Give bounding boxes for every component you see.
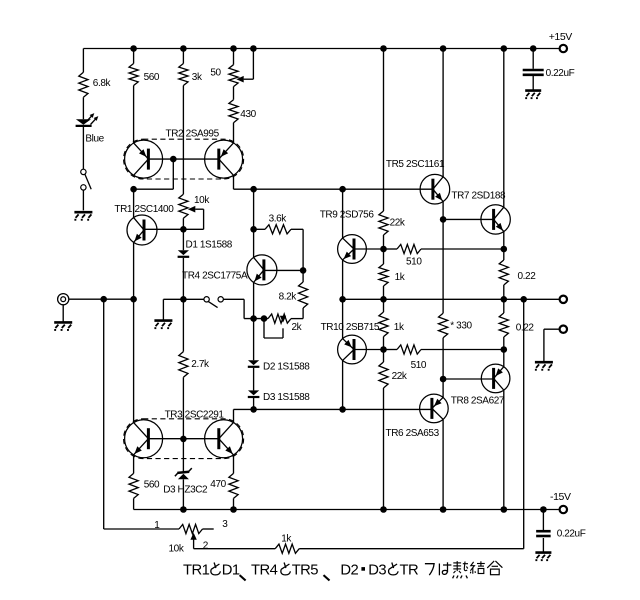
wire input	[69, 298, 134, 300]
node	[339, 296, 346, 303]
wire TR5 collector	[442, 49, 444, 178]
trimmer 10k bottom	[103, 299, 105, 529]
svg-text:TR7 2SD188: TR7 2SD188	[451, 191, 506, 202]
node	[230, 45, 237, 52]
wire	[233, 49, 235, 65]
svg-text:1k: 1k	[395, 272, 406, 283]
trimmer 10k	[179, 194, 188, 218]
node	[180, 506, 187, 513]
svg-text:TR5 2SC1161: TR5 2SC1161	[386, 159, 445, 170]
wire	[82, 49, 84, 73]
wire pin3 stub	[203, 528, 214, 530]
node	[250, 186, 257, 193]
wire TR6 collector	[442, 420, 444, 510]
rheostat 2k	[268, 314, 291, 323]
node	[130, 186, 137, 193]
node	[339, 406, 346, 413]
wire TR7 base	[443, 218, 493, 220]
caption kanji gou	[487, 561, 494, 568]
wire	[82, 190, 84, 210]
svg-text:560: 560	[144, 72, 160, 83]
node	[130, 296, 137, 303]
wire	[302, 229, 304, 270]
resistor 1k upper	[383, 249, 385, 264]
wire	[383, 49, 385, 212]
caption glyph 7	[425, 564, 434, 575]
switch S1	[81, 169, 86, 174]
resistor 0.22 upper	[503, 249, 505, 260]
transistor TR4 2SC1775A	[247, 255, 277, 285]
node	[380, 506, 387, 513]
wire output row	[343, 298, 560, 300]
node	[230, 506, 237, 513]
svg-text:* 330: * 330	[450, 321, 472, 332]
svg-text:510: 510	[406, 257, 422, 268]
node	[380, 346, 387, 353]
wire	[383, 235, 385, 249]
svg-text:0.22: 0.22	[518, 271, 537, 282]
svg-text:D3: D3	[368, 562, 386, 578]
svg-text:TR4 2SC1775A: TR4 2SC1775A	[182, 271, 248, 282]
wire TR10 emitter	[342, 299, 344, 339]
wire	[182, 49, 184, 64]
wire TR3b collector	[233, 409, 235, 423]
wire TR4 emitter	[253, 282, 255, 319]
svg-text:3.6k: 3.6k	[269, 214, 288, 225]
node	[339, 186, 346, 193]
svg-text:TR8 2SA627: TR8 2SA627	[451, 396, 505, 407]
resistor 3k	[179, 64, 188, 86]
resistor 560 top	[129, 64, 138, 86]
node	[440, 506, 447, 513]
transistor TR6 2SA653	[420, 394, 449, 423]
node	[530, 45, 537, 52]
svg-text:3: 3	[222, 519, 228, 530]
wire jack ground stem	[62, 305, 64, 322]
node	[261, 315, 268, 322]
resistor 0.22 lower	[503, 299, 505, 313]
ground speaker	[535, 361, 553, 364]
svg-text:50: 50	[210, 68, 221, 79]
resistor 2.7k	[182, 299, 184, 351]
wire TR8 collector	[503, 390, 505, 510]
wire TR9 collector	[342, 189, 344, 238]
resistor 1k feedback	[299, 548, 524, 550]
input jack	[58, 294, 69, 305]
node	[300, 267, 307, 274]
caption middle dot	[361, 567, 365, 571]
wire TR1 base	[144, 228, 204, 230]
node	[380, 45, 387, 52]
terminal -15V	[560, 506, 567, 513]
caption glyph to 3	[392, 563, 394, 569]
wire	[442, 338, 444, 398]
svg-text:D2: D2	[340, 562, 358, 578]
node	[250, 315, 257, 322]
svg-text:TR2 2SA995: TR2 2SA995	[166, 129, 220, 140]
svg-text:D1: D1	[222, 562, 240, 578]
wire TR5 emitter	[442, 201, 444, 220]
svg-text:8.2k: 8.2k	[279, 292, 298, 303]
ground input	[54, 321, 72, 324]
ground tap	[162, 299, 164, 319]
dashed pair box TR2	[124, 139, 244, 179]
svg-text:2: 2	[203, 541, 209, 552]
wire TR9 base	[354, 248, 384, 250]
wire TR2b collector to VAS line	[233, 175, 235, 189]
svg-text:+15V: +15V	[549, 31, 573, 43]
wire TR3 base link	[148, 438, 218, 440]
diode D1 1S1588	[178, 250, 189, 255]
node	[501, 45, 508, 52]
svg-text:TR6 2SA653: TR6 2SA653	[386, 428, 440, 439]
svg-text:TR1 2SC1400: TR1 2SC1400	[114, 204, 174, 215]
svg-text:10k: 10k	[194, 195, 210, 206]
node	[380, 296, 387, 303]
svg-text:TR10 2SB715: TR10 2SB715	[321, 322, 380, 333]
svg-text:22k: 22k	[392, 371, 408, 382]
wire	[133, 86, 135, 144]
diode D3 1S1588	[253, 368, 255, 391]
node	[440, 45, 447, 52]
wire TR8 base	[443, 378, 493, 380]
wire	[253, 189, 255, 229]
capacitor 0.22uF bottom	[542, 510, 544, 531]
svg-text:3k: 3k	[192, 72, 203, 83]
wire	[223, 298, 244, 300]
wire +15V top rail	[83, 48, 560, 50]
wire	[82, 97, 84, 119]
wire TR10 base	[354, 349, 384, 351]
wire	[182, 258, 184, 299]
svg-text:470: 470	[210, 479, 226, 490]
transistor TR10 2SB715	[338, 335, 367, 364]
svg-text:-15V: -15V	[550, 491, 571, 503]
wire TR7 emitter	[503, 231, 505, 249]
resistor 22k upper	[379, 211, 388, 235]
ground	[535, 551, 551, 554]
wire	[544, 328, 560, 330]
wire -15V bottom rail	[134, 509, 560, 511]
zener D3 HZ3C2	[182, 439, 184, 472]
ground	[74, 211, 92, 214]
wire TR8 emitter	[503, 350, 505, 368]
svg-text:1k: 1k	[281, 534, 292, 545]
node	[180, 226, 187, 233]
svg-text:6.8k: 6.8k	[93, 78, 112, 89]
transistor TR1 2SC1400	[127, 215, 157, 245]
svg-text:0.22uF: 0.22uF	[557, 529, 586, 540]
node	[130, 45, 137, 52]
svg-text:TR1: TR1	[183, 562, 210, 578]
svg-text:Blue: Blue	[85, 134, 104, 145]
node TR3 base	[180, 436, 187, 443]
wire TR4 base	[264, 269, 303, 271]
wire TR3a collector	[133, 299, 135, 423]
node	[501, 506, 508, 513]
transistor TR3a 2SC2291	[125, 420, 163, 458]
resistor 430	[229, 100, 238, 123]
svg-text:1: 1	[154, 520, 160, 531]
resistor 22k lower	[383, 350, 385, 363]
wire 50 wiper	[244, 78, 254, 80]
resistor 510 upper	[384, 248, 398, 250]
wire	[442, 219, 444, 313]
node	[540, 506, 547, 513]
node TR2 base tap	[170, 156, 177, 163]
resistor 8.2k	[302, 270, 304, 282]
node	[520, 296, 527, 303]
svg-text:D1 1S1588: D1 1S1588	[186, 240, 233, 251]
wire TR9 emitter	[342, 260, 344, 300]
wire 10k wiper	[195, 208, 203, 210]
wire TR7 collector	[503, 49, 505, 208]
wire	[182, 218, 184, 229]
svg-text:TR3 2SC2291: TR3 2SC2291	[165, 410, 225, 421]
wire	[182, 229, 184, 250]
svg-text:TR5: TR5	[292, 562, 319, 578]
svg-text:0.22uF: 0.22uF	[546, 68, 575, 79]
wire	[233, 123, 235, 144]
caption glyph to 1	[214, 563, 216, 569]
node	[380, 246, 387, 253]
transistor TR9 2SD756	[338, 235, 367, 264]
wire	[193, 539, 195, 548]
wire	[253, 398, 255, 410]
wire	[291, 318, 303, 320]
ground	[525, 89, 541, 92]
transistor TR2b 2SA995	[205, 140, 243, 178]
node TR8 base tap	[440, 376, 447, 383]
wire lower VAS line	[234, 408, 432, 410]
terminal output+	[560, 296, 567, 303]
svg-text:430: 430	[240, 109, 256, 120]
svg-text:560: 560	[144, 480, 160, 491]
dashed pair box TR3	[124, 419, 244, 459]
node	[250, 226, 257, 233]
transistor TR3b 2SC2291	[205, 420, 243, 458]
svg-text:TR4: TR4	[251, 562, 278, 578]
svg-text:10k: 10k	[169, 544, 185, 555]
resistor 560 bottom	[133, 454, 135, 473]
wire	[182, 86, 184, 195]
wire feedback	[523, 299, 525, 548]
node	[100, 296, 107, 303]
node	[180, 45, 187, 52]
svg-text:2k: 2k	[292, 322, 303, 333]
resistor 1k lower	[383, 299, 385, 312]
svg-text:D3 HZ3C2: D3 HZ3C2	[163, 485, 208, 496]
node	[440, 216, 447, 223]
resistor 3.6k	[254, 228, 265, 230]
transistor TR7 2SD188	[481, 205, 510, 234]
node	[250, 45, 257, 52]
transistor TR8 2SA627	[481, 364, 510, 393]
wire	[133, 49, 135, 64]
node	[501, 296, 508, 303]
caption glyph ha	[438, 564, 440, 576]
svg-text:D2 1S1588: D2 1S1588	[263, 362, 310, 373]
wire TR2 base link	[148, 158, 218, 160]
svg-text:D3 1S1588: D3 1S1588	[263, 392, 310, 403]
caption kanji ketsu	[470, 562, 474, 571]
wire TR1 collector	[133, 189, 135, 218]
wire TR10 collector	[342, 360, 344, 409]
resistor *330	[439, 313, 448, 338]
caption comma 1	[240, 575, 246, 580]
svg-text:510: 510	[411, 360, 427, 371]
LED Blue	[76, 119, 91, 125]
diode D2 1S1588	[253, 319, 255, 361]
node	[501, 246, 508, 253]
svg-text:22k: 22k	[390, 218, 406, 229]
node	[501, 346, 508, 353]
wire	[82, 127, 84, 169]
caption glyph to 2	[284, 563, 286, 569]
terminal output-	[560, 326, 567, 333]
terminal +15V	[560, 45, 567, 52]
node	[180, 296, 187, 303]
svg-text:TR: TR	[400, 562, 419, 578]
wire bias row	[244, 318, 268, 320]
resistor 470	[233, 454, 235, 473]
svg-text:1k: 1k	[394, 322, 405, 333]
svg-text:2.7k: 2.7k	[191, 359, 210, 370]
wire 2k wiper	[282, 328, 284, 338]
wire TR4 collector	[253, 229, 255, 258]
resistor 510 lower	[384, 349, 398, 351]
resistor 6.8k	[79, 72, 88, 97]
rheostat 50	[229, 65, 238, 87]
transistor TR5 2SC1161	[420, 174, 450, 204]
caption kanji netsu	[453, 562, 461, 564]
wire TR1 emitter	[133, 242, 135, 299]
switch S2	[204, 297, 209, 302]
caption comma 2	[324, 575, 330, 580]
transistor TR2a 2SA995	[125, 140, 163, 178]
svg-text:TR9 2SD756: TR9 2SD756	[320, 210, 375, 221]
wire mute row	[163, 298, 204, 300]
capacitor 0.22uF top	[532, 49, 534, 69]
svg-text:0.22: 0.22	[516, 322, 535, 333]
wire	[233, 87, 235, 100]
node	[250, 406, 257, 413]
